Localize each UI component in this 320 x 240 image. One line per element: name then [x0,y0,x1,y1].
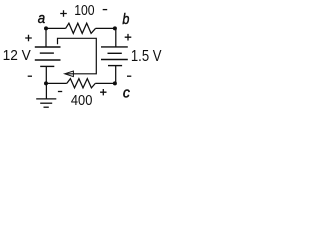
plus sign at 12V battery top [25,35,32,42]
minus sign at 12V battery bottom [28,75,32,77]
battery B1 12V long plate 1 [35,46,61,48]
battery B2 1.5V long plate 2 [101,59,128,61]
resistor 400 (bottom) [67,79,96,88]
wire bottom-right from resistor to node [95,82,115,84]
resistor 100 (top) [66,23,96,33]
node b junction dot [113,26,117,30]
wire top-right from resistor to node b [96,27,115,29]
svg-text:a: a [38,10,45,27]
plus sign at resistor 400 right [100,89,106,95]
svg-text:12 V: 12 V [3,48,31,64]
wire from 1.5V battery down to bottom-right node [115,66,117,84]
ground bar 3 [44,106,49,108]
ground bar 1 [36,98,56,100]
wire from node b down to 1.5V battery [115,28,117,47]
svg-text:1.5 V: 1.5 V [131,48,162,65]
battery B2 1.5V short plate 2 [108,65,122,67]
minus sign at resistor 400 left [58,91,62,93]
svg-text:400: 400 [71,93,93,109]
svg-text:b: b [122,12,129,28]
battery B2 1.5V short plate 1 [108,52,122,54]
battery B1 12V short plate 1 [40,52,54,54]
svg-text:100: 100 [74,3,94,19]
battery B1 12V long plate 2 [35,59,61,61]
wire bottom-left from node to resistor 400 [46,82,67,84]
svg-text:c: c [123,85,131,101]
ground bar 2 [40,102,52,104]
plus sign at resistor 100 left [60,10,67,17]
node a junction dot [44,26,48,30]
minus sign at resistor 100 right [103,9,108,11]
KVL loop arrowhead [65,71,74,77]
bottom-right junction dot (node c) [113,81,117,85]
battery B1 12V short plate 2 [40,65,54,67]
battery B2 1.5V long plate 1 [101,46,128,48]
plus sign at 1.5V battery top [125,34,132,41]
wire from 12V battery down to bottom-left node [45,66,47,83]
KVL loop arrow path [58,38,97,74]
minus sign at 1.5V battery bottom [127,75,131,77]
wire from bottom-left node down to ground [45,83,47,99]
wire top-left from node a to resistor R1 [46,27,66,29]
bottom-left junction dot [44,81,48,85]
wire from node a down to 12V battery [45,28,47,47]
